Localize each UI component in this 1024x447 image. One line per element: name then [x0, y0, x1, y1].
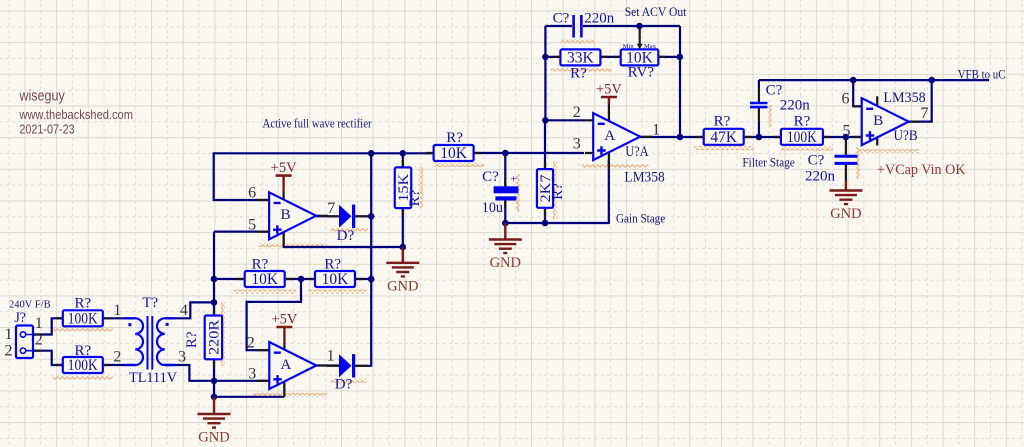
svg-text:10K: 10K — [322, 271, 350, 288]
label D2 designator — [335, 377, 353, 393]
label R11 value — [787, 129, 818, 146]
label R2 value — [68, 357, 99, 374]
label RV1 Min — [623, 43, 635, 50]
squiggle under D1 — [330, 227, 368, 231]
junction dot 18 — [677, 134, 684, 141]
junction dot 10 — [400, 244, 407, 251]
svg-text:LM358: LM358 — [883, 90, 925, 106]
junction dot 19 — [756, 134, 763, 141]
wire opamp B gnd rail — [284, 232, 403, 247]
pin number U2A-2 — [573, 104, 581, 121]
squiggle right of 10u — [516, 174, 520, 212]
svg-text:100K: 100K — [787, 129, 818, 146]
svg-text:RV?: RV? — [628, 65, 655, 81]
caption Active full wave rectifier — [263, 115, 373, 130]
wire U?A output row — [640, 136, 704, 139]
label R7 value — [440, 145, 468, 162]
pin stub R11 leads — [774, 136, 831, 138]
label R7 designator — [446, 130, 463, 146]
capacitor C2 220n — [574, 15, 582, 38]
wire cap 10u bottom lead — [504, 200, 506, 223]
pin number U1B-5 — [248, 216, 256, 233]
op-amp U1A — [269, 342, 316, 389]
pin stub U?B inputs — [854, 106, 862, 137]
svg-text:www.thebackshed.com: www.thebackshed.com — [19, 108, 133, 122]
svg-text:2: 2 — [573, 104, 581, 121]
svg-text:Filter Stage: Filter Stage — [742, 155, 795, 170]
wire T1 pin3 to opamp A pin3 — [214, 380, 269, 382]
squiggle right of 2K7 — [553, 161, 557, 219]
label R8 designator — [550, 183, 566, 200]
label Filter Stage — [742, 155, 795, 170]
resistor R7 10K — [434, 145, 474, 161]
svg-text:1: 1 — [652, 121, 660, 138]
node pot wiper arrowhead — [637, 44, 643, 50]
svg-text:C?: C? — [482, 169, 499, 185]
resistor R8 2K7 — [537, 169, 553, 208]
pin stub opamp A output — [316, 364, 328, 366]
power +5V opamp U?A — [596, 82, 622, 105]
wire R1 to T1 pin1 — [102, 317, 135, 319]
label R8 value — [538, 174, 554, 202]
pin stub cap 10u — [504, 179, 506, 209]
label C1 value — [482, 200, 503, 216]
pin stub 220R leads — [213, 308, 215, 367]
svg-text:240V F/B: 240V F/B — [9, 299, 51, 311]
svg-text:Min: Min — [623, 43, 635, 50]
junction dot 7 — [368, 213, 375, 220]
junction dot 2 — [211, 299, 218, 306]
squiggle under mid 10K — [434, 163, 484, 167]
junction dot 11 — [502, 150, 509, 157]
squiggle under top 220n cap — [560, 39, 595, 43]
junction dot 17 — [677, 54, 684, 61]
squiggle under 33K — [551, 68, 611, 72]
squiggle under 10K b — [308, 290, 366, 294]
label R6 value — [396, 173, 412, 202]
label U2A designator — [625, 144, 648, 160]
label D1 designator — [337, 228, 355, 244]
svg-text:5: 5 — [248, 216, 256, 233]
label R1 designator — [74, 296, 91, 312]
junction dot 22 — [843, 134, 850, 141]
pin number U2B-5 — [843, 123, 851, 140]
pin stub opamp B inputs — [257, 200, 269, 232]
svg-text:R?: R? — [74, 296, 91, 312]
pin stub mid 10K leads — [426, 152, 481, 154]
svg-text:220n: 220n — [584, 11, 615, 27]
svg-text:R?: R? — [184, 331, 200, 348]
wire 100K to U?B pin5 — [823, 136, 862, 138]
svg-text:R?: R? — [794, 114, 811, 130]
svg-text:+: + — [510, 172, 517, 186]
pin stub opamp B power — [283, 192, 285, 247]
wire cap 10u top lead — [504, 153, 506, 187]
pin number U2A-1 — [652, 121, 660, 138]
label R11 designator — [794, 114, 811, 130]
wire U?A pin2 row — [545, 119, 585, 121]
resistor R11 100K — [781, 129, 823, 145]
pin stub U?A power — [608, 104, 610, 170]
label R3 designator — [184, 331, 200, 348]
squiggle under U?A plus — [582, 164, 649, 168]
pin number U1A-3 — [248, 365, 256, 382]
pin stub R1 leads — [56, 317, 110, 319]
svg-text:7: 7 — [921, 105, 929, 122]
resistor R4 10K — [245, 271, 285, 287]
svg-text:R?: R? — [407, 189, 423, 206]
wire rectifier row left — [214, 278, 244, 280]
label C4 value — [805, 169, 836, 185]
svg-text:GND: GND — [198, 430, 229, 446]
pin stub transformer leads — [128, 318, 172, 365]
svg-text:D?: D? — [337, 228, 355, 244]
wire opamp A ground rail — [214, 381, 284, 397]
wire rail right of mid 10K — [474, 152, 584, 154]
wire U?B output riser — [909, 80, 932, 122]
label R4 designator — [252, 257, 269, 273]
label U2B part LM358 — [883, 90, 925, 106]
label R5 value — [322, 271, 350, 288]
capacitor C4 220n bottom — [835, 156, 858, 163]
pin stub 15K leads — [402, 160, 404, 215]
pin stub RV1 leads — [614, 56, 666, 58]
wire J1 pin1 to R1 — [33, 318, 63, 334]
svg-text:100K: 100K — [68, 357, 99, 374]
label R3 value — [207, 320, 223, 355]
svg-text:J?: J? — [14, 310, 26, 326]
wire 33K row — [545, 56, 679, 58]
pin number T1-3 — [178, 349, 186, 366]
pin stub diode D1 — [327, 215, 367, 217]
wire rectifier row right — [356, 278, 371, 280]
svg-text:D?: D? — [335, 377, 353, 393]
svg-text:2021-07-23: 2021-07-23 — [19, 123, 74, 137]
svg-text:4: 4 — [180, 302, 188, 319]
svg-text:GND: GND — [830, 206, 861, 222]
wire VFB top rail — [759, 79, 989, 81]
title text url — [19, 108, 133, 122]
wire 47K to 100K — [744, 136, 781, 138]
label Gain Stage — [616, 210, 665, 225]
squiggle right of fb 220n cap — [769, 105, 773, 127]
junction dot 16 — [636, 23, 643, 30]
wire fb cap top lead — [758, 80, 760, 102]
svg-text:C?: C? — [766, 83, 783, 99]
squiggle under opamp U?A1 — [253, 393, 327, 397]
capacitor C1 10u — [494, 172, 519, 201]
wire pot wiper arrow stem — [639, 26, 641, 45]
label R5 designator — [324, 257, 341, 273]
svg-text:VFB to uC: VFB to uC — [958, 67, 1006, 81]
wire opamp A out to D2 — [316, 364, 339, 366]
label C4 designator — [808, 153, 825, 169]
pin stub R2 leads — [56, 364, 110, 366]
label R9 value — [567, 49, 595, 66]
pin number U1B-7 — [327, 200, 335, 217]
junction dot 4 — [211, 394, 218, 401]
wire top feedback rail — [545, 25, 680, 27]
pin stub R4 leads — [237, 278, 294, 280]
pin number U2B-6 — [842, 91, 850, 108]
svg-text:3: 3 — [573, 135, 581, 152]
ground GND2 — [386, 247, 419, 294]
junction dot 8 — [368, 276, 375, 283]
svg-text:1: 1 — [113, 302, 121, 319]
wire diode cathode vertical — [354, 153, 371, 365]
resistor R1 100K — [63, 310, 103, 326]
svg-text:Set ACV Out: Set ACV Out — [625, 4, 687, 19]
wire opamp B out to D1 — [316, 215, 371, 218]
pin stub 2K7 leads — [544, 162, 546, 217]
label RV1 Max — [644, 43, 657, 50]
resistor R10 47K — [704, 129, 744, 145]
power +5V opamp A — [271, 312, 297, 344]
svg-text:220n: 220n — [780, 98, 811, 114]
pin number J1-1 left — [5, 326, 13, 343]
label T1 value TL111V — [129, 370, 177, 386]
svg-text:B: B — [281, 206, 291, 223]
squiggle under right 100K — [781, 147, 833, 151]
label net 240V F/B — [9, 299, 51, 311]
wire 2K7 bottom lead — [544, 208, 546, 223]
potentiometer RV1 10K — [621, 49, 659, 65]
svg-text:1: 1 — [35, 315, 43, 332]
svg-text:T?: T? — [142, 295, 158, 311]
label net +VCap Vin OK — [877, 162, 966, 178]
pin stub 47K leads — [696, 136, 752, 138]
label C1 designator — [482, 169, 499, 185]
wire 15K top lead — [402, 153, 404, 167]
wire opamp B pin6 and top rail — [214, 153, 434, 200]
label C3 value — [780, 98, 811, 114]
wire T1 pin4 route — [165, 302, 214, 318]
capacitor C3 220n feedback — [750, 103, 768, 107]
wire bottom 220n top lead — [845, 137, 847, 156]
wire gnd row to opamp U?A vminus — [505, 160, 609, 223]
wire R2 to T1 pin2 — [102, 364, 135, 366]
label R10 designator — [714, 114, 731, 130]
pin stub U?A output — [640, 136, 652, 138]
squiggle right of 220R — [221, 302, 225, 366]
label R1 value — [68, 310, 99, 327]
svg-text:47K: 47K — [710, 129, 738, 146]
wire 15K bottom lead — [402, 208, 404, 247]
squiggle right of bottom 220n cap — [857, 147, 861, 179]
wire U?B pin6 drop — [853, 80, 862, 106]
diode D1 — [339, 205, 355, 228]
squiggle under D2 — [331, 379, 367, 383]
svg-text:Max: Max — [644, 43, 657, 50]
svg-text:R?: R? — [714, 114, 731, 130]
svg-text:U?B: U?B — [894, 128, 918, 144]
svg-text:U?A: U?A — [625, 144, 648, 160]
svg-text:GND: GND — [387, 278, 418, 294]
op-amp U1B — [269, 192, 316, 239]
label U2B designator — [894, 128, 918, 144]
svg-text:6: 6 — [842, 91, 850, 108]
resistor R2 100K — [63, 357, 103, 373]
wire feedback left vertical — [544, 26, 546, 120]
label RV1 value — [626, 49, 654, 66]
svg-text:5: 5 — [843, 123, 851, 140]
label R4 value — [251, 271, 279, 288]
svg-text:2: 2 — [5, 343, 13, 360]
title text wiseguy — [19, 88, 66, 105]
svg-text:R?: R? — [550, 183, 566, 200]
label R2 designator — [74, 343, 91, 359]
pin stub R5 leads — [309, 278, 364, 280]
resistor R3 220R — [205, 316, 222, 360]
svg-text:7: 7 — [327, 200, 335, 217]
svg-text:A: A — [604, 127, 615, 144]
junction dot 15 — [542, 54, 549, 61]
resistor R6 15K — [395, 167, 412, 208]
pin stub opamp A inputs — [257, 350, 269, 381]
resistor R9 33K — [560, 49, 600, 65]
svg-text:A: A — [280, 356, 291, 373]
squiggle under R1 — [53, 327, 113, 331]
diode D2 — [339, 354, 355, 377]
svg-text:wiseguy: wiseguy — [19, 88, 66, 105]
junction dot 6 — [368, 150, 375, 157]
svg-text:3: 3 — [248, 365, 256, 382]
junction dot 12 — [502, 220, 509, 227]
svg-text:2: 2 — [113, 349, 121, 366]
squiggle under opamp U?B1 — [259, 243, 327, 247]
wire node vertical 220R — [213, 232, 215, 397]
label R6 designator — [407, 189, 423, 206]
squiggle under U?B plus — [857, 149, 919, 153]
svg-text:R?: R? — [446, 130, 463, 146]
svg-text:1: 1 — [5, 326, 13, 343]
label C2 value — [584, 11, 615, 27]
svg-text:Active full wave rectifier: Active full wave rectifier — [263, 115, 373, 130]
svg-text:LM358: LM358 — [624, 169, 664, 185]
svg-text:10K: 10K — [440, 145, 468, 162]
svg-text:2: 2 — [247, 335, 255, 352]
svg-text:6: 6 — [248, 185, 256, 202]
svg-text:B: B — [873, 112, 883, 129]
label C3 designator — [766, 83, 783, 99]
wire T1 pin3 route — [165, 365, 214, 381]
pin stub connector J1 — [33, 335, 41, 351]
svg-text:220n: 220n — [805, 169, 836, 185]
op-amp U2A — [593, 113, 640, 160]
squiggle under R2 — [53, 376, 113, 380]
squiggle under 10K a — [234, 290, 296, 294]
pin stub opamp A power — [283, 343, 285, 397]
wire 2K7 top lead — [544, 120, 546, 169]
svg-text:Gain Stage: Gain Stage — [616, 210, 665, 225]
pin number U2B-7 — [921, 105, 929, 122]
svg-text:+VCap Vin OK: +VCap Vin OK — [877, 162, 966, 178]
wire feedback right vertical — [679, 26, 681, 137]
squiggle under 47K — [694, 146, 753, 150]
pin number U1A-1 — [327, 347, 335, 364]
wire 10K junction to opamp A pin2 — [247, 279, 301, 350]
pin stub U?B output — [909, 121, 920, 123]
ground GND1 — [198, 397, 231, 446]
svg-text:2: 2 — [35, 332, 43, 349]
svg-text:33K: 33K — [567, 49, 595, 66]
wire fb cap bottom lead — [758, 108, 760, 137]
resistor R5 10K — [315, 271, 355, 287]
junction dot 9 — [400, 150, 407, 157]
label J1 designator — [14, 310, 26, 326]
pin number T1-1 — [113, 302, 121, 319]
ground GND4 — [829, 165, 862, 222]
pin number U2A-3 — [573, 135, 581, 152]
label T1 designator — [142, 295, 158, 311]
svg-text:R?: R? — [570, 66, 587, 82]
title text date — [19, 123, 74, 137]
svg-text:1: 1 — [327, 347, 335, 364]
svg-text:+5V: +5V — [596, 82, 622, 98]
label net VFB to uC — [958, 67, 1006, 81]
transformer T1 — [125, 316, 176, 370]
pin number J1-1 wire — [35, 315, 43, 332]
svg-text:10K: 10K — [251, 271, 279, 288]
label R10 value — [710, 129, 738, 146]
junction dot 14 — [542, 117, 549, 124]
pin stub U?B power — [876, 96, 878, 145]
wire rectifier row mid — [286, 278, 316, 280]
svg-text:+5V: +5V — [271, 312, 297, 328]
svg-text:+5V: +5V — [271, 160, 297, 176]
svg-text:10u: 10u — [482, 200, 503, 216]
pin number T1-2 — [113, 349, 121, 366]
wire J1 pin2 to R2 — [33, 351, 63, 365]
svg-text:GND: GND — [490, 255, 521, 271]
label C2 designator — [553, 11, 570, 27]
op-amp U2B — [862, 98, 909, 145]
pin number U1B-6 — [248, 185, 256, 202]
svg-text:C?: C? — [808, 153, 825, 169]
junction dot 3 — [211, 378, 218, 385]
label R9 designator — [570, 66, 587, 82]
label net Set ACV Out — [625, 4, 687, 19]
svg-text:100K: 100K — [68, 310, 99, 327]
pin number U1A-2 — [247, 335, 255, 352]
power +5V opamp B — [271, 160, 297, 192]
ground GND3 — [489, 223, 522, 271]
wire opamp B pin5 — [214, 231, 269, 233]
label U2A part LM358 — [624, 169, 664, 185]
pin stub diode D2 — [327, 365, 367, 367]
svg-text:220R: 220R — [207, 320, 223, 355]
label RV1 designator — [628, 65, 655, 81]
junction dot 20 — [850, 77, 857, 84]
squiggle right of 15K — [419, 167, 423, 208]
junction dot 5 — [298, 276, 305, 283]
junction dot 13 — [542, 220, 549, 227]
pin number T1-4 — [180, 302, 188, 319]
junction dot 1 — [211, 276, 218, 283]
pin stub R9 leads — [553, 56, 608, 58]
svg-text:3: 3 — [178, 349, 186, 366]
pin number J1-2 wire — [35, 332, 43, 349]
pin stub opamp B output — [316, 215, 328, 217]
pin stub U?A inputs — [585, 120, 593, 153]
svg-text:TL111V: TL111V — [129, 370, 177, 386]
connector J1 — [16, 326, 33, 359]
pin number J1-2 left — [5, 343, 13, 360]
junction dot 21 — [928, 77, 935, 84]
svg-text:C?: C? — [553, 11, 570, 27]
